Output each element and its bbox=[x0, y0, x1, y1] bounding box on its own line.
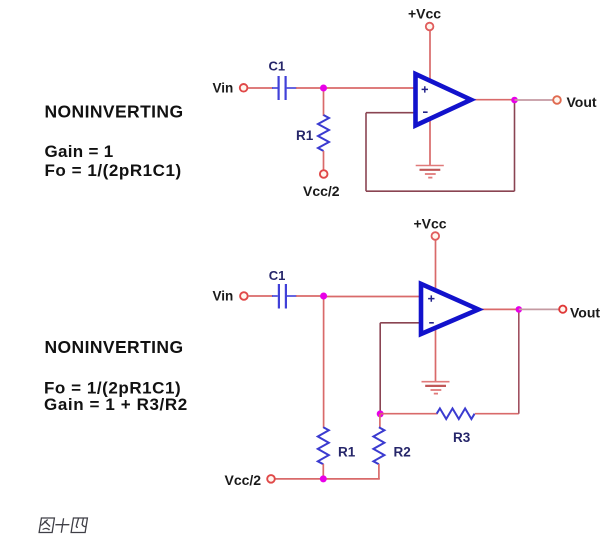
wire R1 to Vcc/2 terminal bbox=[323, 151, 325, 170]
wire node A to op-amp + input bbox=[324, 87, 417, 89]
value label R2 (bottom circuit) bbox=[394, 445, 411, 460]
op-amp U2 (bottom circuit) bbox=[421, 284, 478, 334]
caption Gain = 1 (top circuit) bbox=[45, 142, 114, 161]
wire node D to R3 bbox=[380, 413, 437, 415]
terminal +Vcc (bottom circuit) bbox=[432, 232, 440, 240]
node Vout label (bottom circuit) bbox=[570, 305, 600, 321]
wire node A down to R1 bbox=[323, 88, 325, 116]
terminal Vin (top circuit) bbox=[240, 84, 248, 92]
ground (top circuit) bbox=[416, 166, 444, 178]
wire Vin to C1 bbox=[248, 87, 273, 89]
node B junction dot (top circuit output) bbox=[511, 97, 518, 104]
wire R1 bottom lead bbox=[322, 464, 324, 479]
power Vcc/2 label (top circuit) bbox=[303, 183, 340, 199]
caption NONINVERTING (top circuit) bbox=[45, 102, 184, 122]
wire node E to Vout terminal (bottom) bbox=[519, 308, 559, 310]
wire node C to op-amp + input (bottom) bbox=[324, 296, 422, 298]
value label C1 (top circuit) bbox=[269, 59, 286, 74]
capacitor C1 (top circuit) bbox=[272, 76, 297, 100]
resistor R2 (bottom circuit) bbox=[373, 427, 384, 464]
wire op-amp output to node E (bottom) bbox=[477, 308, 519, 310]
node E junction dot (bottom output) bbox=[516, 306, 523, 313]
wire op-amp output to node B bbox=[470, 99, 515, 101]
power Vcc/2 label (bottom circuit) bbox=[225, 472, 262, 488]
wire node C down to R1 (bottom) bbox=[323, 296, 325, 428]
svg-text:R1: R1 bbox=[338, 445, 356, 460]
svg-text:Gain = 1 + R3/R2: Gain = 1 + R3/R2 bbox=[44, 395, 188, 414]
svg-text:Vin: Vin bbox=[213, 81, 234, 96]
terminal Vout (top circuit) bbox=[553, 96, 561, 104]
terminal Vout (bottom circuit) bbox=[559, 306, 566, 313]
wire +Vcc to op-amp and ground (bottom, vertical) bbox=[435, 241, 437, 382]
resistor R1 (bottom circuit) bbox=[318, 427, 329, 464]
svg-text:C1: C1 bbox=[269, 59, 286, 74]
resistor R1 (top circuit) bbox=[318, 115, 329, 151]
figure caption 图十四 (Figure 14), drawn strokes bbox=[39, 518, 87, 533]
op-amp U1 (top circuit) bbox=[416, 74, 472, 126]
caption NONINVERTING (bottom circuit) bbox=[45, 337, 184, 357]
value label C1 (bottom circuit) bbox=[269, 268, 286, 283]
wire node B to Vout terminal bbox=[515, 99, 554, 101]
caption Fo formula (top circuit) bbox=[45, 161, 182, 180]
svg-text:Vcc/2: Vcc/2 bbox=[225, 472, 262, 488]
capacitor C1 (bottom circuit) bbox=[272, 284, 297, 309]
svg-text:Vcc/2: Vcc/2 bbox=[303, 183, 340, 199]
wire feedback from output down-around to - input (top circuit) bbox=[366, 100, 515, 191]
node Vin label (top circuit) bbox=[213, 81, 234, 96]
svg-text:Vout: Vout bbox=[570, 305, 600, 321]
terminal +Vcc (top circuit) bbox=[426, 23, 434, 31]
terminal Vcc/2 (top circuit) bbox=[320, 170, 328, 178]
wire Vcc/2 rail (bottom) bbox=[275, 478, 380, 480]
svg-text:R2: R2 bbox=[394, 445, 411, 460]
svg-text:+Vcc: +Vcc bbox=[414, 216, 447, 232]
caption Gain formula (bottom circuit) bbox=[44, 395, 188, 414]
svg-text:Fo = 1/(2pR1C1): Fo = 1/(2pR1C1) bbox=[45, 161, 182, 180]
wire +Vcc to op-amp and ground (vertical) bbox=[429, 31, 431, 166]
value label R1 (top circuit) bbox=[296, 128, 314, 143]
svg-text:R3: R3 bbox=[453, 430, 471, 445]
十 bbox=[54, 518, 70, 532]
caption Fo formula (bottom circuit) bbox=[44, 379, 181, 398]
四 outer box bbox=[71, 518, 87, 533]
node F junction dot (R1 to rail) bbox=[320, 475, 327, 482]
svg-text:R1: R1 bbox=[296, 128, 314, 143]
node A junction dot (top circuit) bbox=[320, 85, 327, 92]
svg-text:Vin: Vin bbox=[213, 289, 234, 304]
wire Vin to C1 (bottom) bbox=[248, 295, 273, 297]
resistor R3 (bottom circuit, horizontal) bbox=[437, 408, 475, 419]
wire R2 top lead from node D bbox=[379, 414, 381, 428]
node D junction dot (feedback/R2/R3 junction) bbox=[377, 410, 384, 417]
terminal Vcc/2 (bottom circuit) bbox=[267, 475, 275, 483]
value label R1 (bottom circuit) bbox=[338, 445, 356, 460]
wire feedback - input to node D (bottom circuit) bbox=[380, 323, 422, 414]
wire R3 to node E riser bbox=[475, 309, 519, 413]
power +Vcc label (bottom circuit) bbox=[414, 216, 447, 232]
wire R2 bottom lead bbox=[378, 464, 380, 479]
svg-text:NONINVERTING: NONINVERTING bbox=[45, 102, 184, 122]
图 outer box bbox=[39, 518, 54, 533]
power +Vcc label (top circuit) bbox=[408, 6, 441, 22]
svg-text:NONINVERTING: NONINVERTING bbox=[45, 337, 184, 357]
图 inner strokes bbox=[41, 520, 52, 531]
wire C1 to node C bbox=[296, 295, 324, 297]
wire C1 to node A bbox=[296, 87, 324, 89]
svg-text:+Vcc: +Vcc bbox=[408, 6, 441, 22]
node Vin label (bottom circuit) bbox=[213, 289, 234, 304]
node Vout label (top circuit) bbox=[567, 94, 597, 110]
node C junction dot (bottom circuit) bbox=[320, 293, 327, 300]
svg-text:Gain = 1: Gain = 1 bbox=[45, 142, 114, 161]
svg-text:C1: C1 bbox=[269, 268, 286, 283]
terminal Vin (bottom circuit) bbox=[240, 292, 248, 300]
四 inner strokes bbox=[76, 518, 87, 527]
svg-text:Vout: Vout bbox=[567, 94, 597, 110]
value label R3 (bottom circuit) bbox=[453, 430, 471, 445]
ground (bottom circuit) bbox=[422, 382, 450, 394]
